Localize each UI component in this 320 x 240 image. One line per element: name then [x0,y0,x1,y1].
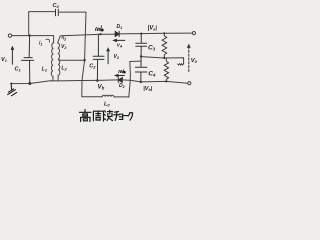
chouon ー [124,115,128,117]
resistor R2 [164,58,168,81]
arrow iB [115,75,124,77]
svg-text:C1: C1 [15,67,22,73]
svg-text:C2: C2 [89,64,96,70]
wire D2 to rail right [122,80,187,83]
wire choke rail [82,96,103,98]
node C2 bottom [96,79,99,82]
label nb node b [119,69,126,73]
node rail left corner [10,82,12,84]
node middle [140,55,142,57]
kanji 高 [84,110,86,113]
katakana ョ [119,114,122,119]
node R2 bottom [165,80,167,82]
node C4 bottom [140,81,142,83]
squiggle under output corner [178,64,184,66]
wire choke rail right [114,96,129,98]
capacitor C2 [93,34,104,80]
wire C0 vertical to center tap [82,12,86,97]
wire center tap [59,59,85,61]
wire choke to middle node vertical [129,61,141,97]
wire input to node [12,35,54,37]
capacitor C3 [136,34,147,57]
svg-text:Vb: Vb [98,84,105,91]
node input junction [28,34,30,36]
wire C3 node to R1 to terminal [141,32,192,35]
ground [8,84,17,96]
arrow V0 dashed [188,45,190,72]
svg-text:V0: V0 [191,58,198,64]
svg-text:C4: C4 [148,70,156,77]
svg-text:|Vb|: |Vb| [143,86,153,92]
node R junction [163,57,165,59]
resistor R1 [162,33,167,58]
arrow iA [114,39,125,41]
katakana ク [128,112,130,116]
svg-text:C3: C3 [148,44,156,51]
bottom rail [11,80,118,84]
label na node a [95,25,103,31]
diode D2 [118,77,122,82]
wire middle to output corner [141,57,184,64]
output terminal bottom [188,82,191,85]
arrow VD [107,48,109,64]
node a [99,33,101,35]
hook mark i2 [62,36,65,39]
inductor L0 choke [102,95,114,97]
wire node a rail [60,34,115,36]
katakana チ [114,110,118,113]
arrow V1 [11,47,13,65]
node C1 bottom [28,82,31,85]
capacitor C1 [22,36,34,84]
caption 高周波チョーク [79,110,132,122]
node C3 top [140,33,142,35]
wire D1 to C3 node [119,33,141,35]
node center tap [83,59,85,61]
wire top rail right [59,11,86,13]
diode D1 [115,31,119,36]
svg-text:|Va|: |Va| [148,25,158,31]
capacitor C4 [135,57,147,82]
wire top rail left [29,12,55,36]
capacitor C0 [56,9,59,16]
input terminal [8,34,11,37]
svg-text:C0: C0 [53,3,60,9]
kanji 波 [105,111,106,112]
inductor L2 secondary coil [58,36,61,81]
node R1 top [163,32,165,34]
inductor L1 primary coil [51,36,53,80]
output terminal top [192,31,195,34]
svg-text:L0: L0 [104,102,110,108]
hook arrow i1 [46,39,50,42]
kanji 周 [93,111,103,121]
